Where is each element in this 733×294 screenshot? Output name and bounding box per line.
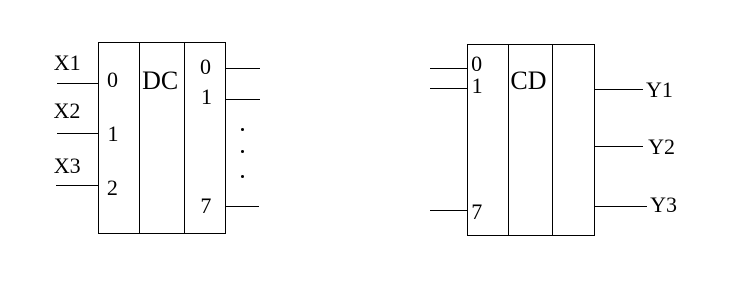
wire decoder output 1 <box>226 99 260 100</box>
decoder U1 input pin 1 label <box>108 123 119 145</box>
coder U2 input pin 1 label <box>472 75 483 97</box>
ellipsis dot 3 between decoder outputs <box>241 175 244 178</box>
wire input X1 <box>57 83 98 84</box>
wire decoder output 7 <box>226 206 259 207</box>
decoder U1 input pin 0 label <box>107 69 118 91</box>
decoder U1 output pin 7 label <box>200 195 211 217</box>
coder U2 divider between label field and output pin field <box>552 44 553 236</box>
wire output Y3 <box>595 206 647 207</box>
wire decoder output 0 <box>226 68 260 69</box>
wire output Y2 <box>595 146 643 147</box>
ellipsis dot 1 between decoder outputs <box>241 128 244 131</box>
coder U2 input pin 0 label <box>471 53 482 75</box>
decoder U1 output pin 0 label <box>200 56 211 78</box>
decoder U1 divider between input pin field and label field <box>139 42 140 234</box>
wire coder input 0 <box>430 68 467 69</box>
wire input X2 <box>57 133 98 134</box>
net label X1 <box>54 52 81 74</box>
coder U2 divider between input pin field and label field <box>508 44 509 236</box>
net label X2 <box>54 100 81 122</box>
wire coder input 7 <box>430 210 467 211</box>
decoder U1 output pin 1 label <box>201 86 212 108</box>
decoder U1 divider between label field and output pin field <box>184 42 185 234</box>
net label Y2 <box>648 136 675 158</box>
coder U2 label CD <box>510 68 546 94</box>
coder U2 (CD) body outline <box>467 44 595 236</box>
decoder U1 (DC) body outline <box>98 42 226 234</box>
ellipsis dot 2 between decoder outputs <box>241 150 244 153</box>
coder U2 input pin 7 label <box>471 201 482 223</box>
wire output Y1 <box>595 89 643 90</box>
wire coder input 1 <box>430 88 467 89</box>
wire input X3 <box>56 185 98 186</box>
net label Y1 <box>646 79 673 101</box>
net label Y3 <box>650 194 677 216</box>
net label X3 <box>54 155 81 177</box>
decoder U1 label DC <box>142 68 178 94</box>
decoder U1 input pin 2 label <box>107 177 118 199</box>
